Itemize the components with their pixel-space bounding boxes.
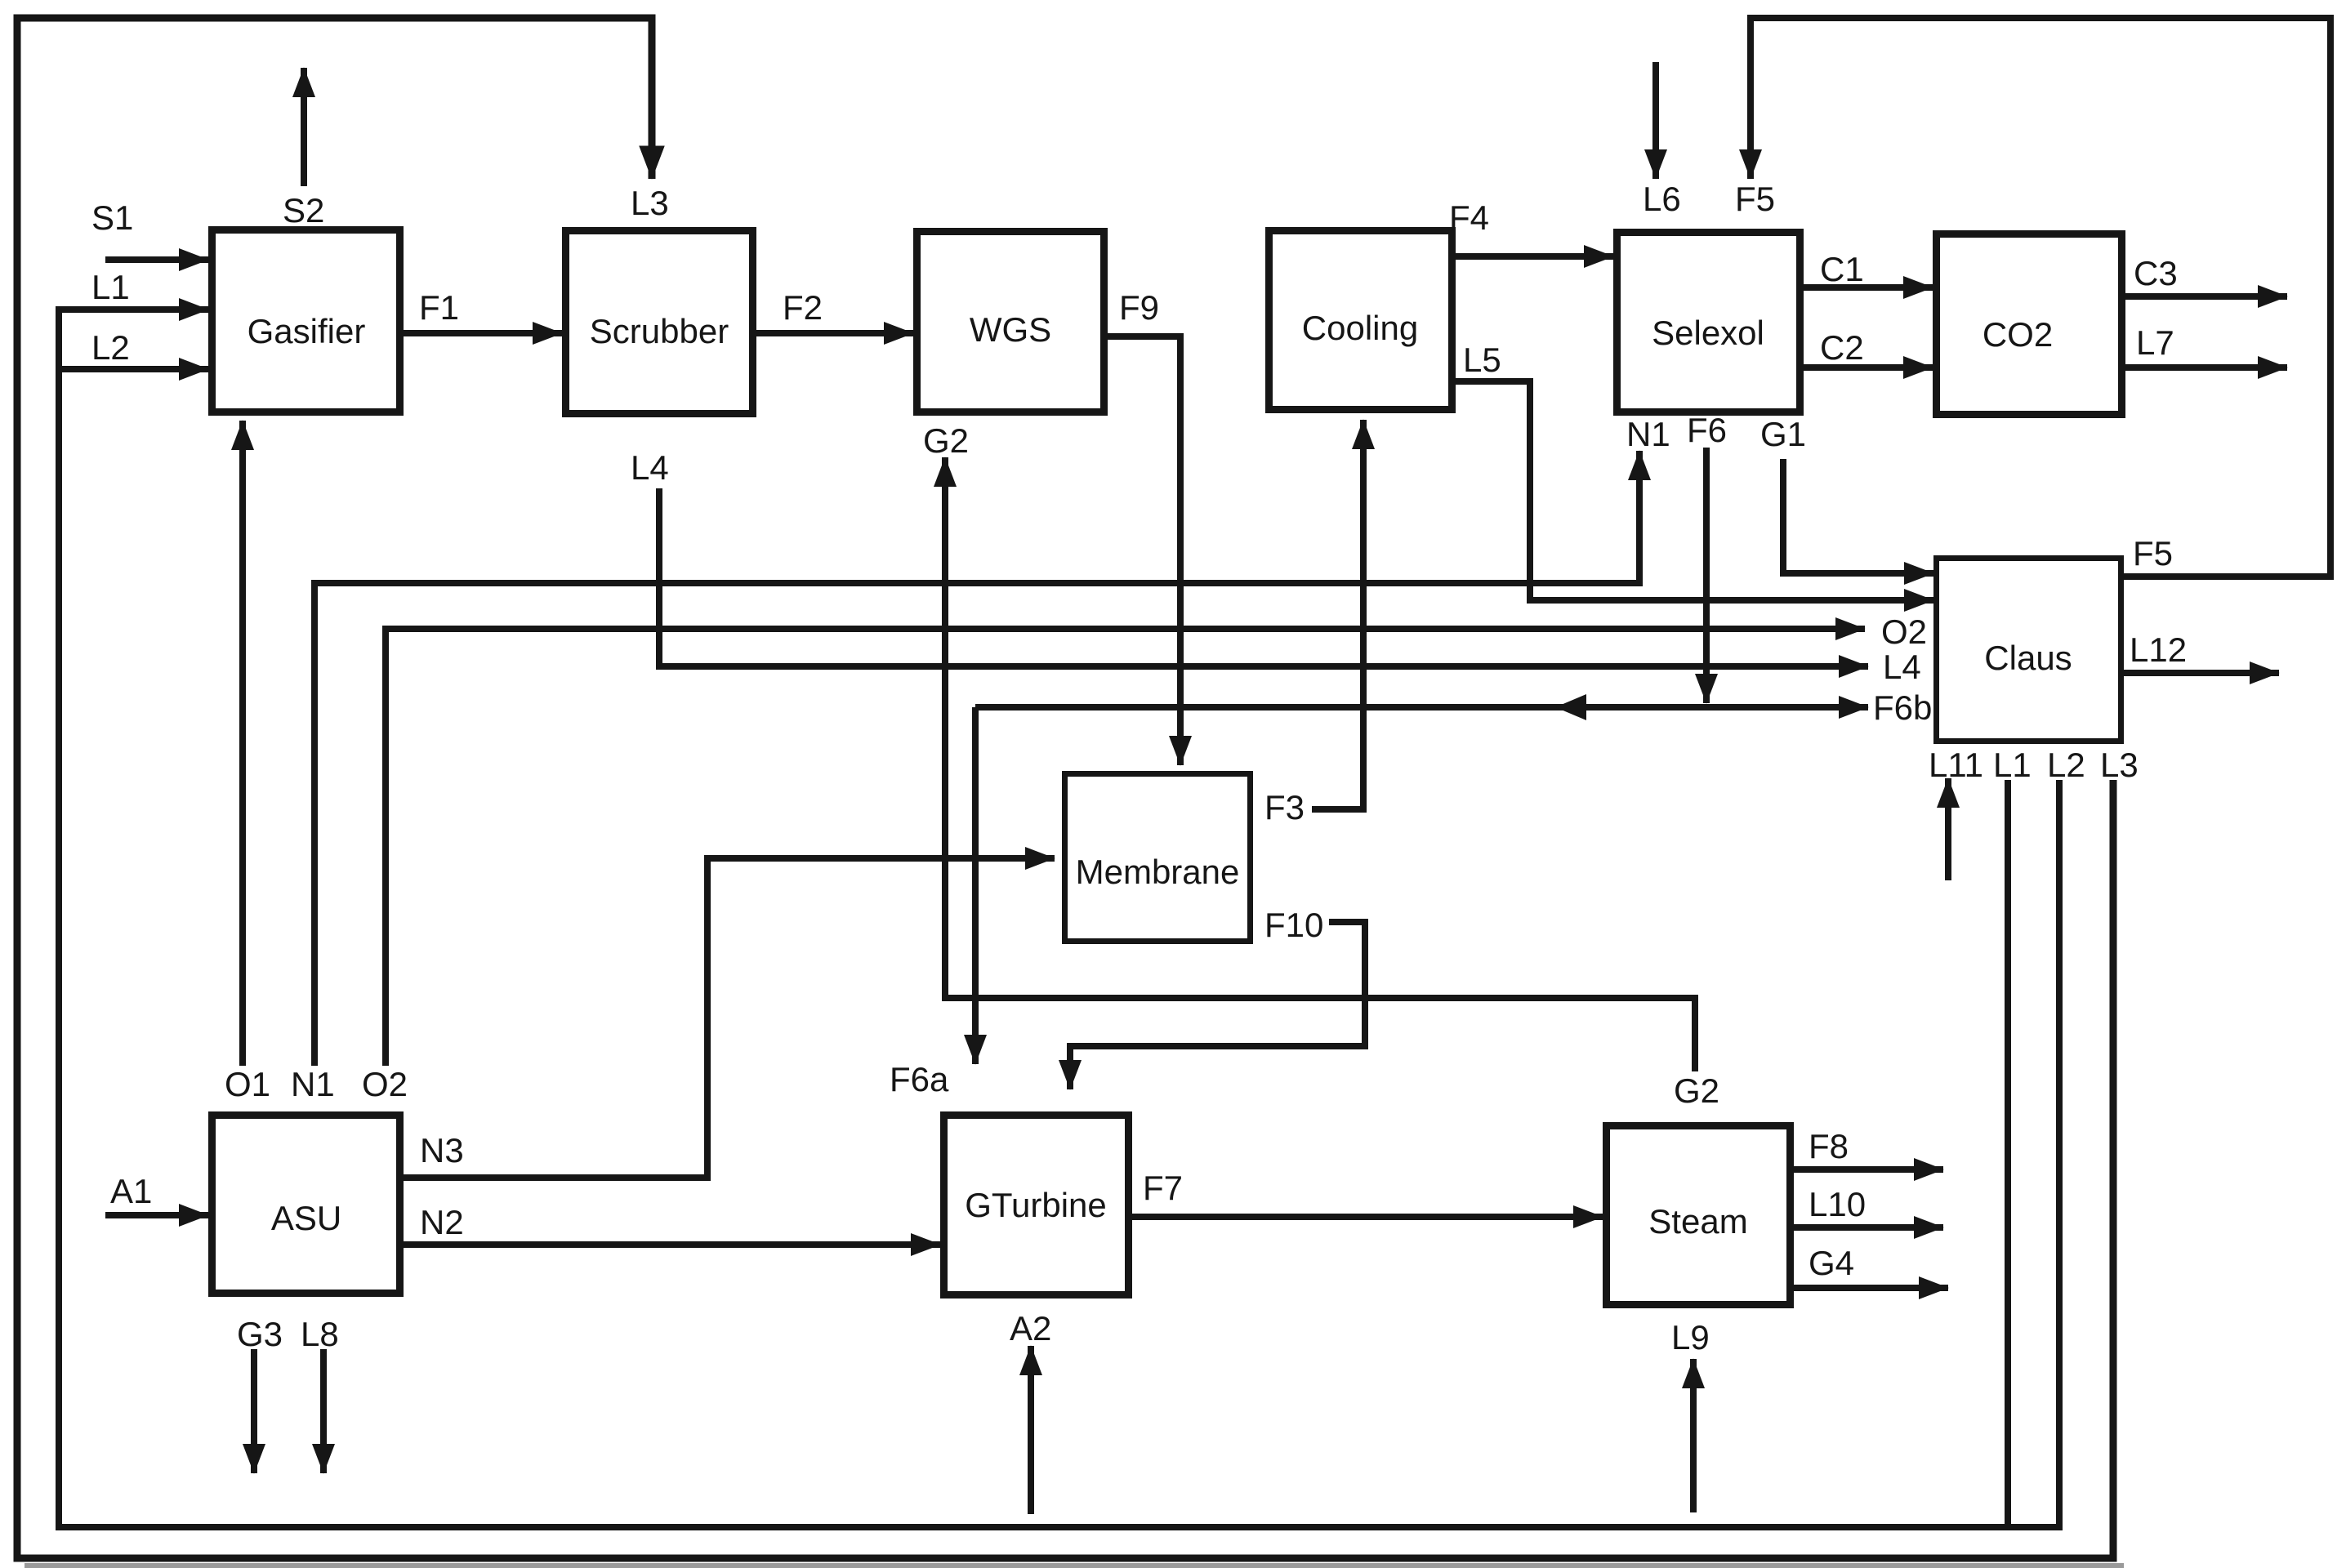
svg-text:Scrubber: Scrubber [590, 312, 729, 350]
block WGS [917, 232, 1104, 412]
wire N3 ASU to Membrane [404, 858, 1055, 1178]
wire L2 branch into Gasifier [59, 366, 208, 372]
svg-text:F6: F6 [1687, 411, 1727, 449]
svg-text:L4: L4 [631, 448, 669, 487]
svg-text:A1: A1 [110, 1172, 152, 1210]
svg-text:Steam: Steam [1648, 1202, 1747, 1241]
svg-text:L4: L4 [1883, 648, 1921, 686]
svg-text:N1: N1 [291, 1065, 335, 1103]
wire F8 Steam output [1794, 1166, 1943, 1173]
wire C3 CO2 output [2125, 293, 2287, 300]
svg-text:L3: L3 [2100, 746, 2139, 784]
block Membrane [1065, 774, 1251, 942]
wire F6 Selexol down [1703, 448, 1710, 703]
svg-text:F6b: F6b [1873, 688, 1932, 727]
svg-text:C2: C2 [1820, 328, 1864, 367]
block Scrubber [566, 231, 753, 414]
svg-text:G2: G2 [923, 421, 969, 460]
wire F2 Scrubber to WGS [756, 330, 913, 336]
svg-text:O2: O2 [362, 1065, 408, 1103]
svg-text:F1: F1 [419, 288, 459, 327]
wire L1 from Claus bottom [2005, 780, 2011, 1527]
wire L6 input down toward Selexol [1652, 62, 1659, 179]
svg-text:F3: F3 [1264, 788, 1305, 826]
svg-text:L11: L11 [1929, 746, 1983, 784]
svg-text:S2: S2 [283, 191, 324, 229]
svg-text:L12: L12 [2130, 630, 2187, 669]
svg-text:GTurbine: GTurbine [965, 1186, 1107, 1224]
svg-text:O1: O1 [225, 1065, 270, 1103]
svg-text:L2: L2 [2047, 746, 2085, 784]
svg-text:F2: F2 [783, 288, 823, 327]
block Steam [1607, 1126, 1791, 1305]
svg-text:L5: L5 [1463, 341, 1501, 379]
svg-text:G4: G4 [1809, 1244, 1854, 1282]
svg-text:L2: L2 [91, 328, 130, 367]
shadow strip bottom [25, 1563, 2124, 1568]
wire L9 input up to Steam [1690, 1359, 1697, 1512]
wire F6b to Claus [975, 704, 1868, 710]
block ASU [212, 1116, 400, 1294]
svg-text:WGS: WGS [970, 310, 1051, 349]
svg-text:L7: L7 [2136, 323, 2174, 362]
wire G2 Steam to WGS bottom [945, 457, 1695, 1071]
wire L5 Cooling to Claus [1456, 381, 1933, 600]
svg-text:F6a: F6a [890, 1060, 949, 1098]
svg-text:S1: S1 [91, 198, 133, 237]
svg-text:L6: L6 [1643, 180, 1681, 218]
wire S2 output up [301, 68, 307, 186]
svg-text:G1: G1 [1760, 415, 1806, 453]
svg-text:G3: G3 [237, 1315, 283, 1353]
svg-text:O2: O2 [1881, 612, 1927, 651]
wire O1 ASU to Gasifier bottom [239, 421, 246, 1066]
svg-text:L1: L1 [1993, 746, 2032, 784]
svg-text:A2: A2 [1010, 1309, 1051, 1347]
wire S1 input [105, 256, 208, 263]
svg-text:F4: F4 [1449, 198, 1489, 237]
svg-text:CO2: CO2 [1983, 315, 2053, 354]
wire F3 Membrane to Cooling bottom [1312, 420, 1363, 809]
svg-text:Selexol: Selexol [1652, 314, 1764, 352]
wire A2 input up to GTurbine [1028, 1346, 1034, 1514]
wire N2 ASU to GTurbine [404, 1241, 940, 1248]
svg-text:F7: F7 [1143, 1169, 1183, 1207]
svg-text:G2: G2 [1674, 1071, 1719, 1110]
svg-text:F5: F5 [2133, 534, 2173, 572]
wire F5 recycle loop (Claus right to Selexol top) [1751, 18, 2330, 577]
wire L2 return (Claus bottom to Gasifier L1 input) [59, 310, 2059, 1527]
wire F9 WGS to Membrane top [1108, 336, 1180, 765]
svg-text:F9: F9 [1119, 288, 1159, 327]
svg-text:L1: L1 [91, 268, 130, 306]
wire F4 Cooling to Selexol [1456, 253, 1613, 260]
wire F6a down to GTurbine [972, 707, 979, 1064]
wire L12 Claus output [2124, 670, 2279, 676]
svg-text:L10: L10 [1809, 1185, 1866, 1223]
svg-text:F8: F8 [1809, 1127, 1849, 1165]
block Gasifier [212, 230, 400, 412]
svg-text:L8: L8 [301, 1315, 339, 1353]
wire G3 ASU output down [251, 1349, 257, 1473]
svg-text:Claus: Claus [1984, 639, 2072, 677]
block GTurbine [944, 1116, 1129, 1295]
arrowhead F6a direction (left) on F6b line [1555, 694, 1586, 720]
svg-text:Cooling: Cooling [1302, 309, 1418, 347]
svg-text:N1: N1 [1626, 415, 1670, 453]
wire C2 Selexol to CO2 [1804, 364, 1933, 371]
wire F7 GTurbine to Steam [1132, 1214, 1603, 1220]
svg-text:N2: N2 [420, 1203, 464, 1241]
block Claus [1937, 559, 2121, 742]
svg-text:Gasifier: Gasifier [248, 312, 366, 350]
svg-text:F10: F10 [1264, 906, 1323, 944]
wire L8 ASU output down [320, 1349, 327, 1473]
wire L4 Scrubber to Claus [659, 488, 1868, 666]
svg-text:C1: C1 [1820, 250, 1864, 288]
svg-text:Membrane: Membrane [1076, 853, 1240, 891]
wire L7 CO2 output [2125, 364, 2287, 371]
wire L10 Steam output [1794, 1224, 1943, 1231]
wire G4 Steam output [1794, 1285, 1948, 1291]
block Cooling [1269, 231, 1452, 410]
block CO2 [1937, 234, 2122, 415]
wire L11 input up into Claus [1945, 778, 1951, 880]
wire F10 Membrane to GTurbine top [1070, 922, 1365, 1089]
wire N1 ASU to Selexol bottom [314, 451, 1639, 1066]
svg-text:N3: N3 [420, 1131, 464, 1169]
wire O2 ASU to Claus [386, 629, 1865, 1066]
svg-text:L9: L9 [1671, 1318, 1710, 1356]
block Selexol [1617, 233, 1800, 412]
wire F1 Gasifier to Scrubber [404, 330, 562, 336]
svg-text:F5: F5 [1735, 180, 1775, 218]
svg-text:C3: C3 [2134, 254, 2178, 292]
wire G1 Selexol to Claus [1783, 459, 1933, 573]
svg-text:L3: L3 [631, 184, 669, 222]
wire A1 input to ASU [105, 1212, 208, 1218]
wire C1 Selexol to CO2 [1804, 284, 1933, 291]
svg-text:ASU: ASU [271, 1199, 341, 1237]
